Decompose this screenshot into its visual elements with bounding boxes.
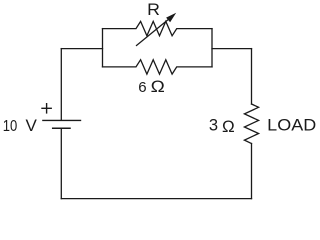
svg-text:Ω: Ω — [222, 117, 235, 136]
svg-text:R: R — [147, 1, 160, 19]
svg-text:LOAD: LOAD — [267, 116, 316, 135]
svg-text:V: V — [26, 116, 38, 135]
svg-text:Ω: Ω — [151, 78, 165, 96]
svg-text:3: 3 — [209, 117, 218, 135]
svg-text:10: 10 — [3, 118, 18, 135]
svg-text:6: 6 — [138, 79, 146, 96]
